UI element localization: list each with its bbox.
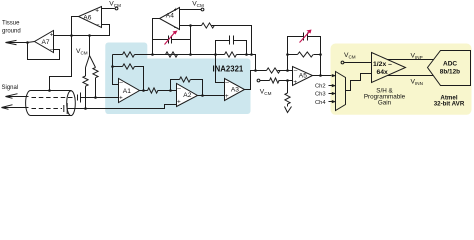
svg-text:1/2x –: 1/2x – (373, 61, 392, 68)
svg-text:INA2321: INA2321 (213, 65, 244, 74)
svg-text:A5: A5 (299, 72, 307, 79)
svg-text:+: + (119, 94, 123, 101)
svg-text:A3: A3 (231, 86, 239, 93)
svg-text:+: + (174, 6, 178, 13)
svg-text:A4: A4 (166, 13, 174, 20)
svg-text:8b/12b: 8b/12b (440, 69, 460, 76)
svg-text:+: + (177, 99, 181, 106)
svg-text:Ch4: Ch4 (315, 100, 326, 106)
svg-text:64x: 64x (377, 69, 389, 76)
svg-text:Gain: Gain (378, 100, 392, 107)
svg-text:+: + (293, 79, 297, 86)
svg-text:–: – (177, 85, 181, 92)
svg-text:A1: A1 (123, 88, 131, 95)
svg-text:–: – (119, 80, 123, 87)
svg-text:–: – (294, 67, 298, 74)
svg-text:–: – (50, 46, 54, 53)
svg-text:A7: A7 (42, 39, 50, 46)
svg-text:Ch3: Ch3 (315, 92, 326, 98)
svg-text:A2: A2 (183, 92, 191, 99)
svg-text:ground: ground (2, 29, 21, 35)
svg-text:+: + (50, 31, 54, 38)
svg-text:Signal: Signal (2, 85, 19, 91)
svg-text:–: – (174, 24, 178, 31)
svg-text:32-bit AVR: 32-bit AVR (434, 100, 465, 107)
svg-text:Ch2: Ch2 (315, 84, 326, 90)
svg-text:+: + (225, 93, 229, 100)
svg-text:+: + (95, 8, 99, 15)
svg-text:–: – (225, 79, 229, 86)
svg-text:Tissue: Tissue (2, 21, 20, 27)
svg-text:–: – (96, 22, 100, 29)
svg-text:A6: A6 (83, 14, 91, 21)
svg-text:ADC: ADC (443, 61, 457, 68)
